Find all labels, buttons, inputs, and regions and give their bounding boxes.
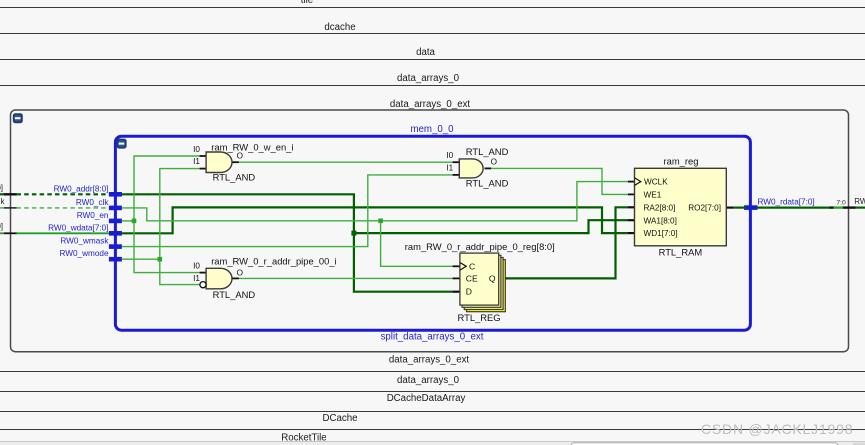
- svg-text:WA1[8:0]: WA1[8:0]: [644, 216, 677, 225]
- wire REG Q to RAM RA2: [506, 207, 628, 278]
- svg-text:data_arrays_0: data_arrays_0: [397, 375, 460, 386]
- wire gate2 O to REG CE: [239, 277, 453, 279]
- wire RW0_wmode vertical to gate1 I1 and gate2 I1 bubble: [160, 169, 200, 285]
- register stack RTL_REG back layer 2: [464, 258, 503, 310]
- pin label RAM RA2[8:0]: [644, 203, 676, 212]
- svg-text:RW0_wmask: RW0_wmask: [60, 237, 109, 246]
- black pin stub RAM WE1: [628, 193, 635, 195]
- black pin stub gate1 O: [233, 161, 239, 163]
- black pin stub REG D: [453, 291, 460, 293]
- svg-text:O: O: [237, 151, 243, 160]
- port label fragment clk (cut at left edge): [0, 197, 5, 206]
- register stack RTL_REG back layer 1: [462, 255, 501, 307]
- pin label RAM RO2[7:0]: [688, 203, 721, 212]
- label RocketTile: [281, 433, 326, 444]
- wire RW0_clk inside: jog down, run right, up to RAM WCLK: [122, 182, 629, 221]
- inversion bubble on gate2 I1: [200, 282, 206, 288]
- wire RW0_wdata bus inside: jog up then to RAM WD1: [122, 207, 629, 233]
- net label RW0_en: [77, 211, 109, 220]
- hierarchy box DCache top edge: [0, 7, 865, 9]
- label tile (top, cut off): [301, 0, 313, 6]
- svg-text:I1: I1: [193, 274, 200, 283]
- net label RW0_wmode: [60, 249, 109, 258]
- pin label REG CE: [466, 274, 478, 284]
- svg-text:ram_reg: ram_reg: [664, 155, 699, 166]
- pin stub RW0_en on blue box: [109, 219, 122, 224]
- black pin stub REG Q: [499, 277, 507, 279]
- label data_arrays_0 (bottom): [397, 375, 460, 386]
- black pin stub REG C: [453, 265, 460, 267]
- svg-text:RTL_RAM: RTL_RAM: [659, 246, 703, 257]
- pin label gate1 O: [237, 151, 243, 160]
- hierarchy box data_arrays_0 top edge: [0, 59, 865, 61]
- port label fragment addr (cut at left edge): [0, 183, 3, 192]
- AND gate U1 ram_RW_0_w_en_i: [206, 152, 232, 173]
- label dcache: [324, 22, 355, 33]
- svg-text:Q: Q: [489, 274, 496, 284]
- pin label REG Q: [489, 274, 496, 284]
- svg-text:I0: I0: [193, 145, 200, 154]
- svg-text:RW0_clk: RW0_clk: [76, 198, 110, 207]
- black pin stub RAM RO2: [726, 207, 733, 209]
- net label RW0_wdata[7:0]: [48, 223, 108, 232]
- svg-text:I0: I0: [446, 151, 453, 160]
- black pin stub RAM WCLK: [628, 181, 635, 183]
- wire RW0_addr bus branch to RAM WA1: [354, 220, 628, 233]
- bus width label 7:0: [836, 199, 846, 206]
- svg-text:RTL_AND: RTL_AND: [213, 171, 256, 182]
- svg-text:RA2[8:0]: RA2[8:0]: [644, 203, 676, 212]
- label gate2 type RTL_AND: [213, 289, 256, 300]
- wire gate3 O to RAM WE1: [491, 168, 628, 194]
- watermark CSDN: [701, 421, 853, 437]
- AND gate U3 RTL_AND (write enable and mask): [459, 159, 483, 178]
- wire RW0_addr bus outside (black across grey border): [0, 193, 17, 195]
- pin stub RW0_addr on blue box: [109, 192, 122, 197]
- svg-text:DCache: DCache: [323, 413, 358, 424]
- svg-text:tile: tile: [301, 0, 313, 6]
- pin stub RW0_wmode on blue box: [109, 257, 122, 262]
- label split_data_arrays_0_ext (blue): [381, 331, 484, 342]
- black pin stub RAM RA2: [628, 206, 635, 208]
- black pin stub gate3 I0: [453, 161, 460, 163]
- label mem_0_0 (blue): [410, 124, 454, 135]
- net label RW0_rdata[7:0]: [758, 197, 815, 206]
- svg-text:data: data: [416, 47, 435, 58]
- junction on RW0_wmode: [158, 257, 163, 262]
- scrollbar strip at bottom: [0, 442, 865, 445]
- black pin stub gate2 O: [233, 277, 239, 279]
- clock triangle on REG C: [460, 263, 466, 271]
- svg-text:RTL_AND: RTL_AND: [466, 146, 509, 157]
- pin stub RW0_wmask on blue box: [109, 244, 122, 249]
- svg-text:RW0_rdata[7:0]: RW0_rdata[7:0]: [758, 197, 815, 206]
- svg-text:r[8:0]: r[8:0]: [0, 183, 3, 192]
- label RAM type RTL_RAM: [659, 246, 703, 257]
- selected module split_data_arrays_0_ext boundary (blue box): [115, 136, 750, 330]
- svg-text:WD1[7:0]: WD1[7:0]: [644, 229, 678, 238]
- svg-text:I1: I1: [193, 157, 200, 166]
- wire RW0_addr bus dashed segment: [17, 193, 111, 195]
- svg-text:data_arrays_0: data_arrays_0: [397, 73, 460, 84]
- hierarchy box DCacheDataArray top edge: [0, 33, 865, 35]
- hierarchy box data_arrays_0 bottom edge: [0, 391, 865, 393]
- svg-text:RW0_addr[8:0]: RW0_addr[8:0]: [54, 184, 109, 193]
- pin label gate2 I0: [193, 262, 200, 271]
- svg-text:RTL_AND: RTL_AND: [466, 177, 509, 188]
- svg-text:C: C: [469, 261, 475, 271]
- svg-text:ram_RW_0_w_en_i: ram_RW_0_w_en_i: [211, 141, 293, 152]
- wire RW0_clk outside (black across grey border): [0, 207, 17, 209]
- junction on RW0_en: [132, 219, 137, 224]
- wire RW0_clk branch down to REG C: [381, 221, 453, 266]
- label register type RTL_REG: [458, 312, 501, 323]
- hierarchy box RocketTile bottom edge: [0, 441, 865, 443]
- register stack RTL_REG back layer 3: [467, 260, 506, 312]
- hierarchy box DCache bottom edge: [0, 429, 865, 431]
- svg-text:WE1: WE1: [644, 191, 662, 200]
- label register instance name: [405, 241, 555, 252]
- label data: [416, 47, 435, 58]
- svg-text:RW0_en: RW0_en: [77, 211, 109, 220]
- wire RW0_wdata bus outside (black across grey border): [0, 232, 17, 234]
- svg-text:ram_RW_0_r_addr_pipe_0_reg[8:0: ram_RW_0_r_addr_pipe_0_reg[8:0]: [405, 241, 555, 252]
- net label RW0_wmask: [60, 237, 109, 246]
- label gate2 instance name: [211, 256, 336, 267]
- svg-text:DCacheDataArray: DCacheDataArray: [387, 393, 466, 404]
- wire gate1 O to gate3 I0: [239, 161, 453, 163]
- pin label gate3 I0: [446, 151, 453, 160]
- black pin stub gate1 I0: [200, 155, 207, 157]
- clock triangle on RAM WCLK: [635, 178, 641, 186]
- port label RW (cut at right edge): [854, 197, 865, 206]
- svg-text:split_data_arrays_0_ext: split_data_arrays_0_ext: [381, 331, 484, 342]
- pin label REG D: [466, 287, 472, 297]
- wire RW0_addr bus inside: to vertical, down to REG D row: [122, 194, 453, 291]
- register U4 ram_RW_0_r_addr_pipe_0_reg front: [460, 253, 499, 305]
- pin label gate3 I1: [446, 164, 453, 173]
- black pin stub gate3 I1: [453, 174, 460, 176]
- net label RW0_addr[8:0]: [54, 184, 109, 193]
- pin label RAM WE1: [644, 191, 662, 200]
- collapse button of cell mem_0_0: [13, 113, 23, 123]
- svg-text:a[7:0]: a[7:0]: [0, 222, 3, 231]
- pin stub RW0_rdata on blue box right edge: [744, 205, 758, 210]
- label gate3 instance RTL_AND (above): [466, 146, 509, 157]
- black pin stub gate2 I0: [200, 272, 207, 274]
- label DCache: [323, 413, 358, 424]
- port label fragment wdata (cut at left edge): [0, 222, 3, 231]
- junction on RW0_addr bus: [351, 231, 356, 236]
- svg-text:RW0_wmode: RW0_wmode: [60, 249, 109, 258]
- wire RW0_en vertical to gate1 I0 and gate2 I0: [134, 156, 200, 273]
- wire RW0_en stub to junction: [122, 220, 135, 222]
- pin label gate2 I1: [193, 274, 200, 283]
- pin stub RW0_clk on blue box: [109, 206, 122, 211]
- label data_arrays_0_ext (top): [390, 99, 471, 110]
- cell mem_0_0 outline (grey rounded box): [11, 110, 849, 352]
- label RAM instance ram_reg: [664, 155, 699, 166]
- net label RW0_clk: [76, 198, 110, 207]
- pin label gate2 O: [237, 268, 243, 277]
- pin label REG C: [469, 261, 475, 271]
- label DCacheDataArray: [387, 393, 466, 404]
- wire RO2 output to blue box edge: [733, 207, 746, 209]
- svg-text:CSDN @JACKLJ1998: CSDN @JACKLJ1998: [701, 421, 853, 437]
- label gate3 type RTL_AND (below): [466, 177, 509, 188]
- collapse button of blue box: [117, 139, 127, 149]
- wire RW0_wdata solid segment to blue box: [17, 232, 111, 234]
- svg-text:RO2[7:0]: RO2[7:0]: [688, 203, 721, 212]
- svg-text:RocketTile: RocketTile: [281, 433, 326, 444]
- hierarchy box data_arrays_0_ext bottom edge: [0, 371, 865, 373]
- svg-text:clk: clk: [0, 197, 5, 206]
- svg-text:7:0: 7:0: [836, 199, 846, 206]
- junction on RW0_clk: [378, 219, 383, 224]
- label data_arrays_0 (top): [397, 73, 460, 84]
- pin label RAM WCLK: [644, 178, 668, 187]
- RAM U5 ram_reg RTL_RAM body: [635, 168, 727, 246]
- label gate1 type RTL_AND: [213, 171, 256, 182]
- hierarchy box DCacheDataArray bottom edge: [0, 411, 865, 413]
- wire RW0_wmode stub to junction: [122, 258, 160, 260]
- black pin stub RAM WD1: [628, 232, 635, 234]
- wire RW0_wmask to gate3 I1: [122, 175, 453, 247]
- svg-text:RTL_AND: RTL_AND: [213, 289, 256, 300]
- black pin stub REG CE: [453, 277, 460, 279]
- svg-text:D: D: [466, 287, 472, 297]
- black pin stub RAM WA1: [628, 219, 635, 221]
- svg-text:WCLK: WCLK: [644, 178, 668, 187]
- label data_arrays_0_ext (bottom): [389, 355, 470, 366]
- svg-text:O: O: [237, 268, 243, 277]
- label gate1 instance name: [211, 141, 293, 152]
- pin stub RW0_wdata on blue box: [109, 231, 122, 236]
- pin label RAM WA1[8:0]: [644, 216, 677, 225]
- svg-text:data_arrays_0_ext: data_arrays_0_ext: [389, 355, 470, 366]
- svg-text:CE: CE: [466, 274, 478, 284]
- pin label gate1 I1: [193, 157, 200, 166]
- svg-text:O: O: [491, 158, 497, 167]
- pin label gate3 O: [491, 158, 497, 167]
- svg-text:ram_RW_0_r_addr_pipe_00_i: ram_RW_0_r_addr_pipe_00_i: [211, 256, 336, 267]
- pin label RAM WD1[7:0]: [644, 229, 678, 238]
- wire RW0_clk dashed segment: [17, 207, 111, 209]
- svg-text:I0: I0: [193, 262, 200, 271]
- svg-text:data_arrays_0_ext: data_arrays_0_ext: [390, 99, 471, 110]
- svg-text:RTL_REG: RTL_REG: [458, 312, 501, 323]
- AND gate U2 ram_RW_0_r_addr_pipe_00_i: [206, 268, 232, 289]
- svg-text:I1: I1: [446, 164, 453, 173]
- svg-text:RW0_wdata[7:0]: RW0_wdata[7:0]: [48, 223, 108, 232]
- svg-text:RW: RW: [854, 197, 865, 206]
- pin label gate1 I0: [193, 145, 200, 154]
- svg-text:dcache: dcache: [324, 22, 355, 33]
- hierarchy box data_arrays_0_ext top edge: [0, 85, 865, 87]
- black pin stub gate1 I1: [200, 168, 207, 170]
- wire RW0_rdata outside blue box: [758, 207, 865, 209]
- black pin stub gate3 O: [485, 167, 492, 169]
- svg-text:mem_0_0: mem_0_0: [410, 124, 454, 135]
